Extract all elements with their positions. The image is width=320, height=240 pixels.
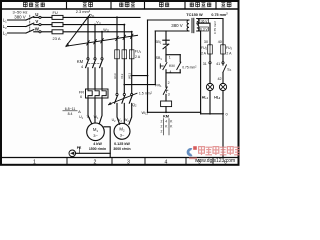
svg-text:U1: U1	[79, 115, 84, 120]
border frame	[1, 1, 239, 165]
svg-text:FU2: FU2	[201, 46, 208, 51]
header divider 4	[184, 2, 186, 9]
svg-text:23 A: 23 A	[52, 36, 60, 41]
hinge circle U	[39, 16, 41, 18]
node W on cooling branch	[131, 31, 133, 33]
wire L1	[8, 19, 26, 21]
transformer TC secondary winding	[197, 19, 199, 32]
transformer primary bottom wire	[155, 30, 189, 32]
svg-text:FU1: FU1	[135, 50, 142, 55]
svg-text:2: 2	[161, 124, 163, 128]
transformer tap wire from V13	[124, 84, 155, 86]
svg-text:www.dgjs123.com: www.dgjs123.com	[195, 158, 235, 164]
svg-text:2: 2	[161, 129, 163, 133]
svg-text:2 A: 2 A	[226, 51, 232, 55]
switch QS pole 1 blade	[26, 17, 34, 20]
header divider 3	[144, 2, 146, 9]
svg-text:V13: V13	[120, 73, 124, 79]
cooling wire 2 down	[123, 25, 125, 50]
fuse FU2	[208, 45, 213, 54]
return bus 0 right	[201, 113, 223, 115]
FR heater element 2	[95, 89, 99, 98]
svg-text:3~: 3~	[93, 133, 98, 138]
svg-text:KM: KM	[163, 113, 169, 118]
svg-text:42: 42	[217, 77, 221, 81]
switch QS linkage dashed	[29, 15, 31, 31]
aux loop bottom	[166, 72, 180, 74]
contactor KM pole 1	[87, 58, 89, 60]
node U on cooling branch	[116, 16, 118, 18]
FR heater element 1	[88, 89, 92, 98]
svg-text:2: 2	[168, 81, 170, 85]
wire lamp HL1 down	[209, 91, 211, 114]
lamp HL2	[219, 83, 226, 90]
motor M2 circle	[114, 123, 130, 139]
node V on cooling branch	[123, 24, 125, 26]
bus junction dots	[165, 111, 167, 113]
svg-text:6.8~11: 6.8~11	[65, 107, 76, 111]
wire to motor M1 V	[94, 98, 96, 123]
cable tick x124	[123, 35, 126, 39]
terminal circle 31	[209, 62, 211, 64]
svg-text:4 kW: 4 kW	[93, 142, 102, 146]
switch QS pole 2 blade	[26, 23, 34, 26]
svg-text:2 A: 2 A	[135, 55, 141, 59]
svg-text:KM: KM	[77, 59, 84, 64]
wire L3	[8, 32, 26, 34]
svg-text:31: 31	[203, 62, 207, 66]
header cell: 冷却泵	[119, 2, 135, 7]
svg-text:L1: L1	[3, 18, 7, 24]
wire W12	[101, 68, 103, 89]
svg-text:L2: L2	[3, 24, 7, 30]
svg-text:4: 4	[170, 70, 172, 74]
svg-text:A: A	[78, 109, 81, 114]
header cell: 控制	[159, 2, 169, 7]
cable tick x131	[130, 34, 133, 38]
cable marker arrow line shallow	[66, 35, 138, 46]
svg-text:1: 1	[33, 159, 36, 165]
control feed wire	[165, 31, 167, 40]
bottom divider 5	[212, 158, 214, 165]
transformer core	[191, 18, 193, 32]
wire V12	[94, 68, 96, 89]
svg-text:M2: M2	[119, 127, 125, 133]
svg-text:3: 3	[127, 159, 130, 165]
svg-text:3: 3	[168, 92, 170, 96]
wire riser x155.3	[154, 31, 156, 85]
svg-text:0.75 mm2: 0.75 mm2	[182, 66, 197, 70]
FR heater element 3	[102, 89, 106, 98]
svg-text:TC150 W: TC150 W	[186, 12, 203, 17]
watermark logo	[187, 146, 197, 159]
hinge circle W	[39, 31, 41, 33]
svg-text:1.5 mm2: 1.5 mm2	[139, 91, 153, 95]
header cell: 主轴	[83, 3, 93, 8]
contactor KM pole 3	[101, 58, 103, 60]
motor M1 circle	[87, 123, 105, 141]
fuse FU3	[221, 45, 226, 54]
bottom band line	[2, 157, 238, 159]
motor frame ground link	[104, 127, 110, 158]
transformer primary top wire	[148, 19, 190, 21]
bottom divider 2	[111, 158, 113, 165]
contact table text	[161, 119, 174, 133]
wire node 1	[165, 55, 167, 62]
cable marker M2 line	[109, 93, 138, 104]
fuse FU1 pole 1	[115, 50, 120, 59]
fuse FU phase W	[52, 30, 63, 34]
switch Q2 pole 1	[116, 93, 118, 95]
return bus 0 left	[148, 111, 201, 113]
contact KM aux blade	[177, 62, 181, 69]
svg-text:1: 1	[169, 55, 171, 59]
svg-text:FU3: FU3	[226, 46, 233, 51]
thermal relay FR box	[86, 89, 109, 98]
cable marker arrowhead	[65, 43, 69, 47]
fuse FU phase V	[52, 23, 63, 27]
svg-text:KM: KM	[169, 64, 175, 68]
svg-text:6.3 V: 6.3 V	[200, 27, 208, 31]
svg-text:W1: W1	[94, 115, 99, 120]
wire V11 horizontal	[63, 24, 124, 26]
fuse FU1 pole 3	[129, 50, 134, 59]
aux loop right leg	[179, 55, 181, 62]
header band line	[2, 8, 238, 10]
switch QS pole 3 blade	[26, 30, 34, 33]
wire U11 down	[87, 17, 89, 57]
secondary wire 30 branch	[197, 23, 210, 45]
PE bus line	[76, 152, 111, 154]
button SB1 blade	[163, 63, 167, 70]
coil KM	[161, 101, 172, 107]
bottom divider 4	[185, 158, 187, 165]
cooling wire 3 down	[131, 32, 133, 50]
secondary wire 40 branch	[197, 19, 223, 45]
contact table column lines	[162, 119, 164, 135]
svg-text:4: 4	[165, 119, 167, 123]
svg-text:0.75 mm2: 0.75 mm2	[211, 13, 228, 17]
svg-text:PE: PE	[77, 146, 82, 150]
cable marker arrow line steep	[66, 15, 90, 47]
wire L2	[8, 26, 26, 28]
wire V11 down	[94, 25, 96, 58]
svg-text:FR: FR	[79, 90, 84, 95]
svg-text:U2: U2	[112, 118, 117, 123]
wire U13	[116, 59, 118, 94]
header cell: 电源指示	[190, 2, 212, 7]
PE label leader	[79, 147, 81, 153]
svg-text:W13: W13	[128, 73, 132, 80]
wire to motor M2 W2	[129, 103, 132, 124]
tap label box 36V	[200, 19, 209, 23]
PE arrowhead	[70, 152, 74, 156]
wire lamp HL2 down to bottom	[222, 91, 224, 158]
svg-text:1500 r/min: 1500 r/min	[89, 147, 106, 151]
bottom divider 3	[144, 158, 146, 165]
button SB2 stop	[163, 39, 169, 41]
wire phase vertical x147.5	[147, 20, 149, 112]
bottom band numbers	[33, 159, 227, 165]
svg-text:V: V	[35, 19, 38, 24]
switch Q2 pole 2	[123, 93, 125, 95]
header cell: 电源开关	[23, 2, 44, 7]
cable marker M2 arrowhead	[108, 102, 112, 106]
svg-text:SA: SA	[227, 67, 231, 72]
wire to motor M2 U2	[117, 103, 120, 124]
contact FR NC	[165, 86, 167, 87]
svg-text:HL1: HL1	[202, 96, 209, 101]
svg-text:380 V: 380 V	[14, 15, 26, 20]
wire to motor M2 V2	[123, 103, 125, 123]
bottom divider 1	[66, 158, 68, 165]
svg-text:L3: L3	[3, 31, 7, 37]
transformer tap wire from W13	[132, 75, 148, 77]
svg-text:30: 30	[204, 40, 208, 44]
tap label box 6.3V	[199, 27, 208, 31]
wire 41	[222, 54, 224, 62]
svg-text:HL2: HL2	[214, 96, 221, 101]
svg-text:M1: M1	[93, 127, 99, 133]
svg-text:U: U	[35, 12, 38, 17]
svg-text:Q2: Q2	[132, 103, 137, 108]
svg-text:40: 40	[218, 40, 222, 44]
svg-text:4: 4	[81, 65, 83, 69]
transformer TC primary winding	[187, 20, 189, 31]
cable tick x102	[101, 39, 104, 43]
svg-text:8.4: 8.4	[68, 112, 73, 116]
wire U out	[34, 16, 39, 18]
svg-text:3000 r/min: 3000 r/min	[113, 147, 130, 151]
svg-text:2: 2	[161, 119, 163, 123]
header divider 5	[215, 2, 217, 9]
cable tick x88	[87, 41, 90, 45]
svg-text:41: 41	[216, 62, 220, 66]
secondary return wire 0	[197, 31, 201, 112]
wire W11 horizontal	[63, 31, 132, 33]
cable tick x95	[94, 40, 97, 44]
wire W13	[131, 59, 133, 94]
svg-text:0.75 mm²: 0.75 mm²	[213, 21, 217, 34]
switch Q2 pole 3	[131, 93, 133, 95]
svg-text:4: 4	[165, 159, 168, 165]
svg-text:36 V: 36 V	[201, 19, 208, 23]
node V11	[94, 24, 96, 26]
svg-text:FU: FU	[53, 10, 58, 15]
wire to motor M1 U	[88, 98, 92, 124]
node U11	[87, 16, 89, 18]
return bus jog	[200, 112, 202, 114]
svg-text:U13: U13	[113, 73, 117, 79]
wire V13	[123, 59, 125, 94]
contactor KM linkage dashed	[89, 63, 102, 65]
tap junction dots	[131, 75, 133, 77]
hinge circle V	[39, 24, 41, 26]
svg-text:0.125 kW: 0.125 kW	[114, 142, 130, 146]
lamp HL1	[206, 83, 213, 90]
cable tick x117	[116, 36, 119, 40]
switch SA blade	[223, 65, 227, 73]
wire W11 down	[101, 32, 103, 58]
wire W out	[34, 31, 39, 33]
wire U12	[87, 68, 89, 89]
wire U11 horizontal	[63, 16, 140, 18]
aux loop top	[166, 54, 180, 56]
header cell: 照明	[221, 3, 231, 8]
cooling wire 1 down	[116, 17, 118, 49]
button SB1 start actuator	[159, 64, 161, 68]
fuse FU phase U	[52, 15, 63, 19]
svg-text:6: 6	[80, 95, 82, 99]
wire to motor M1 W	[99, 98, 102, 124]
node W11	[101, 31, 103, 33]
wire V out	[34, 24, 39, 26]
ground PE circle	[69, 150, 76, 157]
svg-text:2: 2	[94, 159, 97, 165]
svg-text:W2: W2	[124, 118, 129, 123]
svg-text:3~: 3~	[120, 133, 125, 138]
terminal circle 41	[222, 62, 224, 64]
svg-text:2 A: 2 A	[201, 51, 207, 55]
svg-text:380 V: 380 V	[171, 23, 183, 28]
fuse FU1 pole 2	[122, 50, 127, 59]
header divider 1	[66, 2, 68, 9]
wire 31	[209, 54, 211, 62]
contactor KM pole 2	[94, 58, 96, 60]
header divider 2	[110, 2, 112, 9]
